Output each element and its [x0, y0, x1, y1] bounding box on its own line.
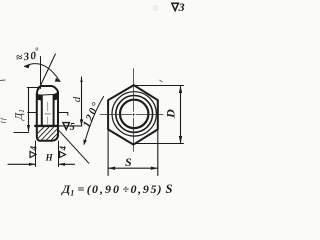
svg-text:4: 4: [58, 146, 68, 152]
svg-text:Д1=(0,90÷0,95)S: Д1=(0,90÷0,95)S: [61, 182, 173, 197]
svg-text:3: 3: [178, 0, 185, 14]
svg-text:H: H: [45, 153, 54, 163]
svg-text:S: S: [125, 155, 132, 169]
svg-text:5: 5: [70, 122, 75, 133]
svg-text:D: D: [164, 109, 178, 119]
svg-text:d: d: [71, 96, 83, 102]
svg-text:4: 4: [29, 146, 39, 152]
svg-text:°: °: [35, 46, 39, 56]
